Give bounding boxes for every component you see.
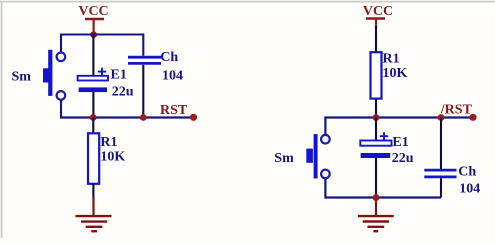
svg-text:/RST: /RST xyxy=(440,103,473,118)
switch Sm (left): top contact xyxy=(57,53,66,62)
capacitor E1 top plate (right) xyxy=(360,141,391,146)
svg-text:10K: 10K xyxy=(100,150,125,165)
svg-text:E1: E1 xyxy=(111,68,127,83)
capacitor E1 plus sign (right) xyxy=(380,132,388,140)
value 104 (right) xyxy=(459,181,480,196)
svg-text:VCC: VCC xyxy=(78,4,108,19)
switch Sm label (left) xyxy=(12,70,32,85)
svg-text:104: 104 xyxy=(162,69,183,84)
wire: R1 bottom to ground (left) xyxy=(92,184,94,199)
node: rail junction at Ch (left) xyxy=(140,114,147,121)
wire: rail down to E1 (right) xyxy=(375,118,377,141)
svg-text:VCC: VCC xyxy=(363,4,393,19)
node: rail junction at Ch (right) xyxy=(438,114,445,121)
wire bottom rail RST (left) xyxy=(60,116,194,118)
switch Sm (left): bottom contact xyxy=(57,91,66,100)
node VCC junction dot (left) xyxy=(90,31,97,38)
ground symbol (left) xyxy=(76,197,112,231)
svg-text:E1: E1 xyxy=(392,135,408,150)
wire: button bottom to bottom rail (left) xyxy=(60,100,62,118)
label Ch (right) xyxy=(458,165,476,180)
node: ground junction dot (right) xyxy=(373,194,380,201)
capacitor E1 bottom plate (right) xyxy=(361,153,391,158)
net label /RST (right) xyxy=(440,103,473,118)
power VCC bar symbol (right) xyxy=(366,19,385,28)
svg-text:10K: 10K xyxy=(383,66,408,81)
node: rail junction at R1/E1 (right) xyxy=(373,114,380,121)
node: rail junction at R1 (left) xyxy=(90,114,97,121)
label Ch (left) xyxy=(160,50,178,65)
svg-text:RST: RST xyxy=(160,103,188,118)
capacitor E1 plus sign (left) xyxy=(98,68,106,76)
resistor R1 body (left) xyxy=(88,133,99,184)
label E1 (right) xyxy=(392,135,408,150)
label E1 (left) xyxy=(111,68,127,83)
wire top rail (left): button top to Ch top xyxy=(61,35,143,56)
capacitor Ch bottom plate (left) xyxy=(128,62,161,65)
ground symbol (right) xyxy=(358,199,394,232)
frame top edge xyxy=(0,1,495,3)
svg-text:Ch: Ch xyxy=(458,165,476,180)
switch Sm (right): actuator bar xyxy=(306,134,317,178)
power VCC bar symbol (left) xyxy=(85,19,104,35)
capacitor E1 top plate (left) xyxy=(78,76,108,81)
net label RST (left) xyxy=(160,103,188,118)
frame left edge xyxy=(1,1,3,238)
svg-text:22u: 22u xyxy=(392,151,414,166)
capacitor Ch bottom plate (right) xyxy=(424,175,456,178)
switch Sm (right): bottom contact xyxy=(321,170,330,179)
svg-text:Sm: Sm xyxy=(12,70,32,85)
wire: E1 bottom to rail (left) xyxy=(92,92,94,118)
switch Sm (right): top contact xyxy=(321,135,330,144)
wire: VCC to R1 (right) xyxy=(375,26,377,53)
wire: VCC dot down to E1 (left) xyxy=(92,35,94,77)
value 104 (left) xyxy=(162,69,183,84)
wire: E1 bottom to rail (right) xyxy=(375,158,377,198)
label R1 (right) xyxy=(383,52,400,67)
node: RST terminal dot (left) xyxy=(190,114,197,121)
wire: rail down to Ch (right) xyxy=(440,118,442,170)
svg-text:22u: 22u xyxy=(112,85,134,100)
capacitor Ch top plate (left) xyxy=(128,56,161,59)
resistor R1 body (right) xyxy=(371,52,382,98)
value 22u (right) xyxy=(392,151,414,166)
wire: junction down to R1 (left) xyxy=(92,118,94,134)
value 22u (left) xyxy=(112,85,134,100)
capacitor E1 bottom plate (left) xyxy=(79,87,107,92)
wire: Ch bottom to rail (left) xyxy=(142,65,144,118)
wire: R1 bottom to rail (right) xyxy=(375,99,377,118)
svg-text:R1: R1 xyxy=(383,52,400,67)
svg-text:Ch: Ch xyxy=(160,50,178,65)
node: /RST terminal dot (right) xyxy=(469,114,476,121)
switch Sm label (right) xyxy=(274,151,294,166)
capacitor Ch top plate (right) xyxy=(424,169,456,172)
svg-text:104: 104 xyxy=(459,181,480,196)
power VCC label (right) xyxy=(363,4,393,19)
wire: Ch bottom to rail (right) xyxy=(440,178,442,197)
wire top rail /RST (right): button top up and across xyxy=(325,118,473,135)
power VCC label (left) xyxy=(78,4,108,19)
switch Sm (left): actuator bar xyxy=(43,50,52,96)
wire: button bottom to bottom rail (right) xyxy=(325,178,441,197)
value 10K (left) xyxy=(100,150,125,165)
svg-text:Sm: Sm xyxy=(274,151,294,166)
svg-text:R1: R1 xyxy=(100,135,117,150)
label R1 (left) xyxy=(100,135,117,150)
value 10K (right) xyxy=(383,66,408,81)
